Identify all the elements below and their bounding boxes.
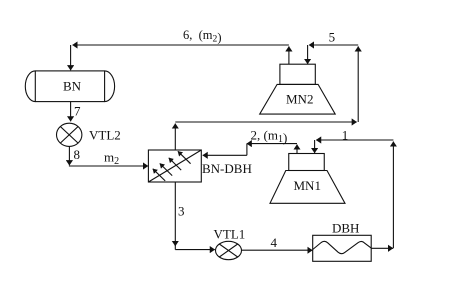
wire 2 into exchanger right side [203, 154, 247, 156]
heater DBH with wavy element [313, 235, 372, 261]
wire 4 into DBH [242, 249, 313, 251]
wire 5 vertical up [357, 46, 359, 122]
svg-text:DBH: DBH [332, 221, 359, 236]
label 3 [178, 204, 185, 219]
mixer MN2 [260, 64, 336, 114]
wire 8 vertical [68, 146, 70, 165]
wire 6 exit from MN2 top [288, 46, 290, 64]
svg-text:4: 4 [271, 235, 278, 250]
svg-text:8: 8 [74, 147, 81, 162]
wire DBH outlet to riser [371, 247, 393, 249]
svg-text:MN1: MN1 [294, 178, 321, 193]
wire BN inlet vertical [70, 45, 72, 70]
wire 5 top horizontal [309, 44, 358, 46]
label 4 [271, 235, 278, 250]
svg-text:BN-DBH: BN-DBH [202, 161, 252, 176]
svg-text:6, (m2): 6, (m2) [183, 28, 221, 44]
heat exchanger BN-DBH [148, 150, 201, 182]
label BN [63, 79, 82, 94]
label 5 [329, 29, 336, 44]
svg-text:7: 7 [74, 104, 81, 119]
label BN-DBH [202, 161, 252, 176]
wire 3 vertical from exchanger bottom [174, 182, 176, 246]
svg-text:2, (m1): 2, (m1) [251, 128, 288, 146]
svg-text:m2: m2 [104, 150, 119, 168]
wire 7 [70, 102, 72, 122]
label 8 [74, 147, 81, 162]
svg-text:VTL2: VTL2 [89, 128, 121, 143]
valve VTL1 (ellipse with X) [216, 241, 242, 259]
label stream 6 (m2) [183, 28, 221, 44]
label VTL2 [89, 128, 121, 143]
wire 1 vertical from DBH outlet [392, 142, 394, 249]
wire 5 long horizontal under MN2 [175, 121, 356, 123]
mixer MN1 [270, 154, 345, 204]
wire 5 riser from exchanger top [174, 124, 176, 150]
label 1 [342, 128, 349, 143]
svg-text:1: 1 [342, 128, 349, 143]
wire m2 horizontal into exchanger [69, 165, 148, 167]
svg-text:3: 3 [178, 204, 185, 219]
svg-text:5: 5 [329, 29, 336, 44]
label DBH [332, 221, 359, 236]
wire 2 step down [246, 144, 248, 156]
wire 6 horizontal (MN2 top to left corner) [73, 44, 289, 46]
wire 3 horizontal into VTL1 [175, 249, 215, 251]
label MN1 [294, 178, 321, 193]
wire 1 horizontal [316, 139, 393, 141]
vessel BN (horizontal drum) [25, 71, 114, 102]
wire 2 exit from MN1 top [296, 145, 298, 154]
label 7 [74, 104, 81, 119]
svg-text:VTL1: VTL1 [214, 227, 246, 242]
label m2 [104, 150, 119, 168]
svg-text:BN: BN [63, 79, 82, 94]
label VTL1 [214, 227, 246, 242]
label stream 2 (m1) [251, 128, 288, 146]
svg-text:MN2: MN2 [286, 92, 313, 107]
wire 5 into MN2 [307, 45, 309, 64]
label MN2 [286, 92, 313, 107]
valve VTL2 (circle with X) [56, 123, 81, 146]
wire 1 into MN1 [314, 140, 316, 153]
wire 2 horizontal [247, 143, 297, 145]
